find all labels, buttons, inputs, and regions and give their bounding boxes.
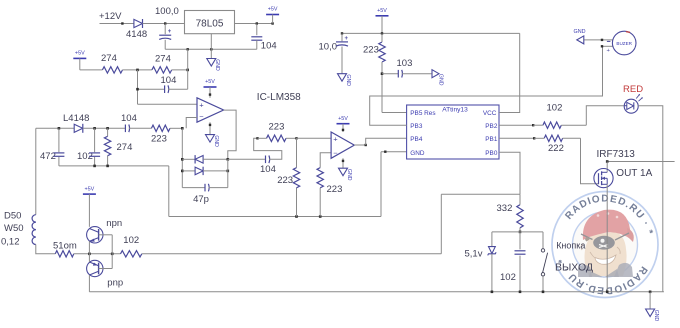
regulator U2 78L05 bbox=[185, 11, 235, 34]
svg-text:GND: GND bbox=[574, 29, 586, 35]
resistor R 332 bbox=[517, 205, 523, 228]
wire cap C2 bottom lead bbox=[256, 40, 258, 49]
diode D6 clamp lower bbox=[195, 167, 203, 175]
resistor R 274c bbox=[104, 136, 110, 155]
wire LED right down bbox=[638, 106, 663, 292]
capacitor C2 104 bbox=[251, 36, 262, 38]
wire cap C3 right bbox=[168, 88, 188, 90]
svg-text:223: 223 bbox=[269, 122, 285, 133]
wire bus up to MCU gnd bbox=[380, 152, 382, 217]
svg-text:+5V: +5V bbox=[268, 7, 278, 13]
wire VCC to +5V rail bbox=[499, 33, 520, 112]
transistor Q1 npn bbox=[87, 227, 103, 243]
resistor R 222 bbox=[544, 135, 562, 141]
svg-text:0,12: 0,12 bbox=[1, 237, 20, 248]
capacitor C6 102 leads bbox=[94, 128, 96, 152]
wire 274a-274b bbox=[123, 69, 152, 71]
resistor R 274a bbox=[102, 67, 122, 73]
svg-text:pnp: pnp bbox=[107, 278, 123, 289]
capacitor C7 47p bbox=[204, 184, 206, 192]
svg-text:GND: GND bbox=[213, 135, 219, 147]
svg-text:GND: GND bbox=[653, 310, 659, 322]
resistor R 223b bbox=[267, 135, 287, 141]
svg-text:+5V: +5V bbox=[338, 116, 348, 122]
wire node row194 bbox=[441, 193, 520, 195]
svg-text:Кнопка: Кнопка bbox=[556, 241, 585, 251]
power +5V terminal mid bbox=[376, 15, 389, 17]
wire clamp row2 right bbox=[203, 170, 228, 172]
capacitor C8 104 bbox=[265, 156, 267, 164]
svg-text:PB4: PB4 bbox=[410, 136, 423, 143]
svg-text:102: 102 bbox=[500, 272, 516, 283]
diode D 4148 bbox=[134, 19, 143, 27]
inductor L1 D50 W50 0,12 bbox=[32, 215, 36, 222]
wire op2 gnd stub bbox=[342, 158, 344, 168]
wire 332 leads bbox=[519, 194, 521, 204]
svg-text:47p: 47p bbox=[193, 194, 209, 205]
wire +5V top rail bbox=[342, 32, 520, 34]
svg-text:OUT 1A: OUT 1A bbox=[616, 168, 652, 179]
svg-text:RED: RED bbox=[623, 84, 643, 95]
ground under C9 bbox=[338, 74, 347, 82]
wire cap C2 top lead bbox=[256, 24, 258, 36]
wire op1 output wrap bbox=[224, 110, 237, 159]
svg-text:+: + bbox=[333, 135, 338, 144]
wire clamp right rail bbox=[227, 159, 229, 187]
wire base rail bbox=[111, 235, 113, 269]
svg-text:L4148: L4148 bbox=[63, 113, 89, 124]
wire PB2 stub bbox=[499, 124, 533, 126]
power +5V terminal op1 bbox=[204, 86, 217, 88]
wire 274b right bbox=[172, 69, 188, 71]
wire pnp emitter lead bbox=[88, 254, 90, 262]
watermark logo RADIODED.RU bbox=[552, 192, 658, 298]
wire buzzer gnd lead bbox=[584, 39, 613, 41]
svg-text:npn: npn bbox=[106, 218, 122, 229]
transistor Q3 IRF7313 bbox=[594, 169, 613, 188]
wire clamp row2 left bbox=[182, 170, 195, 172]
wire node down to bottom bus bbox=[168, 166, 170, 217]
capacitor C6 102 bbox=[89, 152, 100, 154]
svg-text:102: 102 bbox=[123, 235, 139, 246]
wire diode to regulator bbox=[143, 23, 185, 25]
wire op2 -input drop bbox=[320, 153, 331, 168]
ground op1 bbox=[206, 135, 215, 143]
wire left riser bbox=[440, 194, 442, 254]
svg-text:10,0: 10,0 bbox=[319, 42, 338, 53]
transistor Q2 pnp bbox=[87, 260, 103, 276]
svg-text:−: − bbox=[199, 112, 204, 121]
resistor R 223e bbox=[379, 42, 385, 62]
wire input row left bbox=[36, 127, 74, 129]
resistor R 102a bbox=[121, 251, 142, 257]
switch SB1 button bbox=[541, 249, 544, 252]
IC U3 ATtiny13 box bbox=[407, 105, 499, 159]
wire source to bottom rail bbox=[606, 184, 608, 291]
svg-text:78L05: 78L05 bbox=[196, 19, 224, 30]
op-amp U1B LM358 bbox=[331, 132, 354, 158]
wire op1 +input bbox=[138, 103, 198, 105]
wire regulator gnd pin bbox=[210, 34, 212, 59]
wire clamp left rail bbox=[181, 128, 183, 187]
svg-text:4148: 4148 bbox=[126, 29, 147, 40]
svg-text:ВЫХОД: ВЫХОД bbox=[555, 262, 593, 274]
power +5V terminal top right bbox=[266, 14, 279, 16]
wire 103 row bbox=[382, 73, 398, 75]
wire bottom rail bbox=[89, 291, 664, 293]
svg-text:GND: GND bbox=[410, 150, 425, 157]
svg-text:223: 223 bbox=[277, 175, 293, 186]
wire op2 output bbox=[354, 144, 365, 146]
capacitor C10 103 bbox=[397, 70, 399, 78]
wire R223b leads bbox=[258, 137, 267, 139]
svg-text:+: + bbox=[199, 100, 204, 109]
svg-text:+5V: +5V bbox=[85, 186, 95, 192]
ground under 78L05 bbox=[207, 59, 216, 67]
svg-text:+: + bbox=[168, 29, 172, 35]
wire long bottom link bbox=[142, 253, 442, 255]
svg-text:VCC: VCC bbox=[483, 110, 497, 117]
wire cap104 to R223 bbox=[129, 127, 152, 129]
wire R223e leads bbox=[381, 33, 383, 42]
ground bottom right bbox=[646, 309, 655, 317]
wire button bottom lead bbox=[542, 276, 544, 292]
resistor R 102b bbox=[543, 122, 561, 128]
svg-text:102: 102 bbox=[547, 103, 563, 114]
capacitor C5 472 leads bbox=[58, 128, 60, 152]
svg-text:GND: GND bbox=[345, 74, 351, 86]
wire drain node bbox=[607, 161, 674, 163]
wire node vertical x188 bbox=[187, 49, 189, 89]
wire PB0 path bbox=[499, 152, 520, 194]
wire 47p row left bbox=[182, 187, 205, 189]
svg-text:274: 274 bbox=[117, 142, 133, 153]
svg-text:103: 103 bbox=[397, 58, 413, 69]
wire 222 leads bbox=[534, 137, 544, 139]
wire PB1 stub bbox=[499, 137, 534, 139]
svg-text:222: 222 bbox=[548, 143, 564, 154]
wire to R 274a bbox=[80, 69, 103, 71]
svg-text:223: 223 bbox=[363, 45, 379, 56]
svg-text:BUZER: BUZER bbox=[616, 41, 632, 46]
wire cap C3 row bbox=[138, 88, 165, 90]
wire clamp row1 left bbox=[182, 158, 195, 160]
wire buzzer minus lead bbox=[603, 45, 613, 47]
wire op1 -input riser bbox=[186, 118, 197, 129]
wire caps bottom node bbox=[59, 165, 169, 167]
wire gnd drop bottom right bbox=[649, 292, 651, 309]
op-amp U1A LM358 bbox=[197, 98, 224, 122]
resistor R 274b bbox=[152, 67, 172, 73]
wire inductor top lead bbox=[35, 128, 37, 214]
svg-text:−: − bbox=[333, 148, 338, 157]
wire MCU gnd stub bbox=[381, 151, 407, 153]
svg-text:D50: D50 bbox=[4, 210, 21, 221]
wire bottom bus bbox=[169, 216, 381, 218]
wire +12V input bbox=[100, 23, 134, 25]
power +5V terminal npn bbox=[83, 193, 96, 195]
ground op2 bbox=[339, 168, 348, 176]
wire 47p row right bbox=[209, 187, 228, 189]
svg-text:100,0: 100,0 bbox=[155, 6, 179, 17]
svg-text:223: 223 bbox=[151, 134, 167, 145]
ground right arrow near 103 bbox=[432, 70, 439, 78]
svg-text:104: 104 bbox=[261, 41, 277, 52]
ground left arrow buzzer bbox=[577, 36, 584, 44]
svg-text:+12V: +12V bbox=[99, 11, 122, 22]
svg-text:+5V: +5V bbox=[75, 51, 85, 57]
svg-text:IC-LM358: IC-LM358 bbox=[257, 92, 301, 103]
wire op1 gnd stub bbox=[209, 122, 211, 134]
wire diode to cap104 bbox=[83, 127, 126, 129]
power +5V terminal left bbox=[73, 57, 86, 59]
wire zener bottom lead bbox=[491, 254, 493, 292]
capacitor C11 102 leads bbox=[519, 232, 521, 250]
capacitor C11 102 bbox=[515, 250, 526, 252]
wire regulator output bbox=[235, 23, 273, 25]
wire clamp row1 right bbox=[203, 158, 228, 160]
svg-text:GND: GND bbox=[438, 74, 444, 86]
svg-text:+5V: +5V bbox=[377, 8, 387, 14]
resistor R 51om bbox=[55, 251, 74, 257]
wire up to LED row bbox=[586, 106, 624, 126]
wire row 232 bbox=[492, 231, 543, 233]
wire pnp collector lead bbox=[88, 275, 90, 292]
svg-text:+: + bbox=[345, 36, 349, 42]
resistor R 223c leads bbox=[296, 138, 298, 167]
capacitor C1 100,0 bbox=[159, 34, 171, 36]
wire PB3 to buzzer bbox=[370, 46, 603, 125]
svg-text:PB0: PB0 bbox=[485, 150, 498, 157]
svg-text:GND: GND bbox=[346, 169, 352, 181]
wire cap104d Z path bbox=[254, 138, 282, 159]
wire emitter row bbox=[74, 253, 121, 255]
svg-text:PB3: PB3 bbox=[410, 123, 423, 130]
capacitor C4 104 bbox=[124, 125, 126, 133]
wire R223d bottom lead bbox=[319, 188, 321, 217]
resistor R 223c bbox=[293, 168, 299, 188]
wire inductor bottom lead bbox=[36, 245, 56, 254]
capacitor C5 472 bbox=[53, 152, 64, 154]
wire cap C1 top lead bbox=[164, 24, 166, 35]
diode D5 clamp upper bbox=[195, 156, 203, 164]
svg-text:5,1v: 5,1v bbox=[465, 249, 483, 260]
wire zener top lead bbox=[491, 232, 493, 247]
svg-text:104: 104 bbox=[260, 164, 276, 175]
svg-text:274: 274 bbox=[155, 54, 171, 65]
wire 103 to gnd bbox=[402, 73, 432, 75]
wire drain lead bbox=[606, 162, 608, 173]
capacitor C9 10,0 leads bbox=[341, 33, 343, 41]
resistor R 223d bbox=[317, 168, 323, 188]
wire to op2 +input bbox=[297, 137, 332, 139]
power +5V terminal op2 bbox=[337, 123, 350, 125]
svg-text:GND: GND bbox=[214, 59, 220, 71]
wire gate drop bbox=[581, 138, 599, 183]
LED D7 RED bbox=[624, 99, 638, 113]
wire MCU reset stub bbox=[382, 112, 407, 114]
capacitor C3 104 bbox=[164, 85, 166, 93]
svg-text:+5V: +5V bbox=[205, 79, 215, 85]
svg-text:332: 332 bbox=[497, 203, 513, 214]
svg-text:W50: W50 bbox=[4, 223, 24, 234]
resistor R 274c leads bbox=[107, 128, 109, 136]
wire R223a right bbox=[170, 127, 182, 129]
svg-text:PB1: PB1 bbox=[485, 136, 498, 143]
svg-text:104: 104 bbox=[161, 75, 177, 86]
wire 102b leads bbox=[533, 124, 543, 126]
svg-text:IRF7313: IRF7313 bbox=[597, 149, 636, 160]
zener D8 5.1v bbox=[489, 247, 496, 254]
svg-text:104: 104 bbox=[121, 113, 137, 124]
wire node vertical x137 bbox=[137, 70, 139, 104]
diode D L4148 bbox=[74, 124, 83, 132]
svg-text:PB2: PB2 bbox=[485, 123, 498, 130]
svg-text:PB5 Res: PB5 Res bbox=[410, 110, 435, 117]
svg-text:ATtiny13: ATtiny13 bbox=[442, 107, 468, 114]
wire ground rail under 78L05 bbox=[165, 48, 257, 50]
wire npn emitter lead bbox=[88, 241, 90, 254]
wire button top lead bbox=[542, 232, 544, 249]
svg-text:274: 274 bbox=[101, 53, 117, 64]
svg-text:223: 223 bbox=[327, 184, 343, 195]
buzzer BZ1 bbox=[612, 31, 636, 55]
resistor R 223a bbox=[151, 125, 170, 131]
capacitor C9 10,0 bbox=[336, 41, 348, 43]
wire cap C1 bottom lead bbox=[164, 40, 166, 50]
wire row to cap104d bbox=[228, 158, 266, 160]
